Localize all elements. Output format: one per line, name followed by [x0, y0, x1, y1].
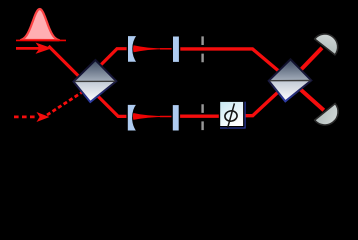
- mirror M2 (bottom arm curved mirror): [127, 104, 137, 131]
- detector D1 (top): [315, 29, 343, 55]
- beam splitter BS2: [269, 59, 312, 101]
- wire: BS1 to bottom arm (diagonal + horizontal): [94, 92, 129, 116]
- dashed reference line (top arm): [201, 36, 203, 62]
- detector D2 (bottom): [315, 103, 344, 130]
- wire: BS1 to top arm (diagonal + horizontal): [98, 49, 129, 68]
- input arrow (photon): [16, 43, 52, 54]
- wire: phase box to BS2 diagonal: [242, 81, 291, 116]
- wire: dotted vacuum input diagonal into BS1: [47, 89, 87, 115]
- dashed reference line (bottom arm): [201, 104, 203, 131]
- wire: bottom arm horizontal into phase box: [177, 114, 223, 117]
- wire: BS2 to detector D1: [291, 48, 323, 81]
- phase shifter box φ: [220, 101, 246, 128]
- waveplate W1 (top arm blue slab): [172, 36, 179, 63]
- waveplate W2 (bottom arm blue slab): [172, 104, 179, 131]
- wire: top arm horizontal to BS2 diagonal: [179, 49, 291, 81]
- mirror M1 (top arm curved mirror): [127, 35, 137, 62]
- focused beam cone (top arm): [133, 45, 166, 52]
- wire: solid input diagonal into BS1: [49, 46, 86, 83]
- input pulse (gaussian wavepacket): [16, 9, 66, 40]
- focused beam cone (bottom arm): [133, 113, 166, 120]
- beam splitter BS1: [74, 60, 117, 102]
- wire: BS2 to detector D2: [291, 81, 324, 111]
- dotted input arrow (vacuum port): [14, 112, 50, 122]
